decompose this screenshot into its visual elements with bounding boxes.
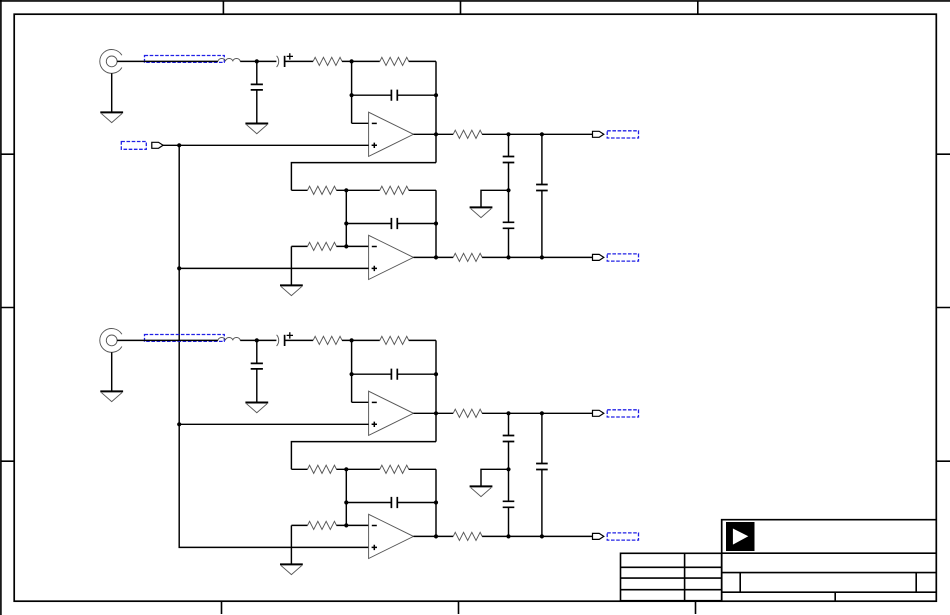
wire feedback R to right vertical ch2 [409,339,436,341]
wire rail to non-inverting input U2a [179,423,368,425]
wire coupling cap to R ch1 [285,60,314,62]
wire filter1 bottom ch2 [508,507,510,536]
junction fb cap / output net ch1 [434,93,438,97]
node (input shunt) ch2 [255,338,259,342]
wire node to shunt cap ch2 [256,340,258,363]
resistor R1b (feedback top) [380,57,409,65]
plus polarity mark C1b [287,53,293,59]
ground (output filter ch2) [470,486,493,496]
wire U2a output [414,412,454,414]
node B ch2 [344,467,348,471]
capacitor C2b straight plate [284,335,286,346]
capacitor C1b (polarized coupling) curved plate [277,56,279,67]
resistor R2b (feedback top) [380,336,409,344]
resistor R2f (inverter gain) [308,521,337,529]
node A ch2 [350,338,354,342]
capacitor C1e (filter1 lower) [503,222,515,228]
wire U2b output [414,535,454,537]
ground (output filter ch1) [470,207,493,217]
node U2a output [434,411,438,415]
capacitor C2a (input shunt) [251,363,263,369]
junction inverter fb cap / right vertical ch1 [434,221,438,225]
wire filter1 mid ch2 [508,442,510,502]
junction node B / fb cap ch1 [344,221,348,225]
zone tick marks top edge [223,1,697,14]
wire filter mid to ground ch2 [481,469,509,486]
wire node B down ch1 [345,190,347,246]
wire input port to non-inverting input U1a [162,144,369,146]
title block cell divider right [915,573,917,593]
node B ch1 [344,188,348,192]
resistor R2e (inverter feedback) [380,465,409,473]
resistor R2c (output top) [453,409,482,417]
wire right vertical (fb net) ch2 [435,340,437,441]
resistor R2a (series input) [313,336,342,344]
junction rail / U2a non-inverting [177,422,181,426]
wire feedback cap to output net ch1 [397,94,436,96]
title block bottom row divider [834,592,836,601]
capacitor C2d (filter1 upper) [503,436,515,442]
wire U1b output [414,256,454,258]
resistor R1f (inverter gain) [308,242,337,250]
wire filter1 bottom ch1 [508,228,510,257]
port (output+ ch2) [593,410,604,416]
junction rail / U1b non-inverting [177,266,181,270]
net label box (input net ch1) [145,56,225,63]
node U2b output [434,534,438,538]
capacitor C2e (filter1 lower) [503,501,515,507]
capacitor C2c (feedback) [391,369,397,380]
op-amp U1a [369,112,414,156]
wire to R inverter ch2 [291,468,307,470]
wire node B down ch2 [345,469,347,525]
resistor R1e (inverter feedback) [380,186,409,194]
capacitor C1g (inverter feedback) [391,218,397,229]
wire filter2 top ch1 [541,134,543,184]
outer sheet border (top edge) [0,0,950,2]
node filter2 bottom ch1 [540,255,544,259]
op-amp U2a [369,391,414,435]
junction node A / fb cap ch2 [350,372,354,376]
ground (input shunt cap ch1) [245,124,268,134]
plus polarity mark C2b [287,332,293,338]
node filter2 top ch2 [540,411,544,415]
wire filter2 bottom ch1 [541,191,543,258]
node (input shunt) ch1 [255,59,259,63]
resistor R1c (output top) [453,130,482,138]
capacitor C1d (filter1 upper) [503,157,515,163]
wire node A down to inverting input ch2 [351,340,353,402]
capacitor C2f (differential) [536,464,548,470]
wire feedback R to right vertical ch1 [409,60,436,62]
wire output net to inverter input ch2 [291,442,436,470]
node filter1 bottom ch2 [506,534,510,538]
ground (J1 shield) [100,112,123,122]
wire node A down to inverting input ch1 [351,61,353,123]
outer sheet border (left edge) [0,0,2,615]
wire inverter ground column ch1 [290,246,292,285]
wire rail (input distribution) [179,145,368,547]
logo white triangle [733,529,748,545]
wire to inverting input U2a [352,401,369,403]
wire filter1 mid ch1 [508,163,510,223]
title block row line 2 [722,572,937,574]
wire filter1 top to cap ch2 [508,413,510,435]
wire coupling cap to R ch2 [285,339,314,341]
resistor R1a (series input) [313,57,342,65]
ground (input shunt cap ch2) [245,403,268,413]
wire inverter fb cap right ch1 [397,223,436,225]
node filter1 bottom ch1 [506,255,510,259]
port (output+ ch1) [593,131,604,137]
wire J2 shield to ground [111,352,113,391]
ferrite bead L2 [218,338,240,341]
title block cell divider left [739,573,741,593]
node filter2 top ch1 [540,132,544,136]
node U1a output [434,132,438,136]
ferrite bead L1 [218,59,240,62]
wire inverter ground column ch2 [290,525,292,564]
wire node to shunt cap ch1 [256,61,258,84]
node U1b output [434,255,438,259]
node filter1 top ch1 [506,132,510,136]
wire R to inverting input U1b [336,245,368,247]
junction port wire / rail [177,143,181,147]
wire R to node B ch2 [336,468,379,470]
port (signal input) [152,142,163,148]
wire ground leg to R ch1 [291,245,307,247]
title block row line 3 [722,591,937,593]
wire inverter fb R to right vertical ch1 [409,189,436,191]
port (output- ch2) [593,533,604,539]
wire node A to feedback cap ch2 [352,373,392,375]
wire shunt cap to ground ch1 [256,90,258,124]
capacitor C1a (input shunt) [251,84,263,90]
junction fb cap / output net ch2 [434,372,438,376]
zone tick marks bottom edge [222,601,696,614]
wire R to node A ch1 [342,60,380,62]
net label box (output- ch1) [607,254,638,261]
wire output top rail ch2 [482,412,592,414]
port (output- ch1) [593,254,604,260]
capacitor C1b straight plate [284,56,286,67]
ground (J2 shield) [100,391,123,401]
resistor R2d (inverter input) [308,465,337,473]
title block row line (below logo) [722,552,937,554]
zone tick marks left edge [1,154,14,461]
op-amp U1b [369,235,414,279]
wire output bottom rail ch1 [482,256,592,258]
wire R to node B ch1 [336,189,379,191]
wire R to inverting input U2b [336,524,368,526]
connector J1 (BNC input) [100,50,122,74]
wire inverter fb R to right vertical ch2 [409,468,436,470]
wire right vertical (inverter fb) ch2 [435,469,437,536]
revision table row line 3 [621,589,722,591]
wire R to node A ch2 [342,339,380,341]
zone tick marks right edge [936,154,950,461]
capacitor C1f (differential) [536,185,548,191]
wire filter mid to ground ch1 [481,190,509,207]
net label box (output+ ch1) [607,131,638,138]
revision table row line 2 [621,577,722,579]
net label box (input net ch2) [145,335,225,342]
wire node A to feedback cap ch1 [352,94,392,96]
node A ch1 [350,59,354,63]
wire output top rail ch1 [482,133,592,135]
node filter2 bottom ch2 [540,534,544,538]
wire right vertical (inverter fb) ch1 [435,190,437,257]
resistor R2g (output bottom) [453,532,482,540]
wire filter1 top to cap ch1 [508,134,510,156]
wire to inverting input U1a [352,122,369,124]
op-amp U2b [369,514,414,558]
revision table column divider [684,553,686,600]
wire filter2 top ch2 [541,413,543,463]
net label box (input port) [121,142,146,150]
resistor R1d (inverter input) [308,186,337,194]
ground (inverter ch1) [280,285,303,295]
wire U1a output [414,133,454,135]
connector J2 (BNC input) [100,329,122,353]
capacitor C1c (feedback) [391,90,397,101]
wire shunt cap to ground ch2 [256,369,258,403]
ground (inverter ch2) [280,564,303,574]
node filter1 mid ch2 [506,467,510,471]
wire rail to non-inverting input U1b [179,267,368,269]
wire node B to inverter fb cap ch1 [346,223,391,225]
node filter1 mid ch1 [506,188,510,192]
logo black square (Analog Devices) [726,522,755,551]
wire J2 center pin to bead [117,339,218,341]
wire J1 center pin to bead [117,60,218,62]
wire feedback cap to output net ch2 [397,373,436,375]
junction node B / fb cap ch2 [344,500,348,504]
junction node B / inverting input ch2 [344,523,348,527]
capacitor C2g (inverter feedback) [391,497,397,508]
net label box (output+ ch2) [607,410,638,417]
wire output net to inverter input ch1 [291,163,436,191]
resistor R1g (output bottom) [453,253,482,261]
junction node B / inverting input ch1 [344,244,348,248]
net label box (output- ch2) [607,533,638,540]
wire ground leg to R ch2 [291,524,307,526]
wire bead to node ch2 [240,339,276,341]
wire filter2 bottom ch2 [541,470,543,537]
wire inverter fb cap right ch2 [397,502,436,504]
node filter1 top ch2 [506,411,510,415]
revision table row line 1 [621,566,722,568]
wire bead to node ch1 [240,60,276,62]
wire J1 shield to ground [111,73,113,112]
revision table outline (left of title block) [621,553,722,600]
wire output bottom rail ch2 [482,535,592,537]
junction node A / fb cap ch1 [350,93,354,97]
junction inverter fb cap / right vertical ch2 [434,500,438,504]
wire right vertical (fb net) ch1 [435,61,437,162]
wire node B to inverter fb cap ch2 [346,502,391,504]
capacitor C2b (polarized coupling) curved plate [277,335,279,346]
wire to R inverter ch1 [291,189,307,191]
title block outline [722,520,937,601]
